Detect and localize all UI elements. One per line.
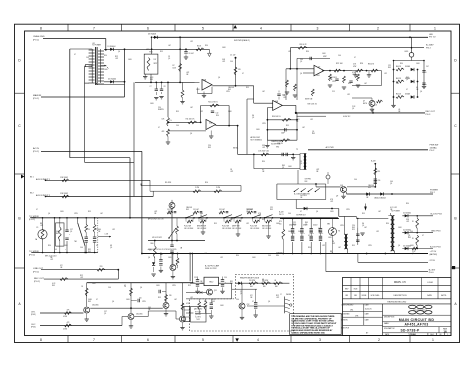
svg-text:7: 7 bbox=[93, 338, 95, 342]
svg-text:AF451: AF451 bbox=[233, 147, 238, 150]
svg-text:BRIGHT SW: BRIGHT SW bbox=[197, 225, 206, 227]
svg-text:J7: J7 bbox=[280, 294, 282, 296]
svg-text:R9 470K: R9 470K bbox=[165, 182, 172, 184]
svg-text:R55: R55 bbox=[88, 211, 91, 213]
svg-text:.022: .022 bbox=[347, 94, 350, 96]
svg-text:Q5: Q5 bbox=[104, 313, 106, 315]
svg-text:D2 1N4004: D2 1N4004 bbox=[108, 79, 116, 81]
svg-text:SD-9738-P: SD-9738-P bbox=[400, 328, 420, 332]
svg-text:U3B: U3B bbox=[209, 122, 212, 124]
svg-text:C44: C44 bbox=[338, 55, 341, 57]
svg-text:10U: 10U bbox=[139, 298, 142, 300]
svg-text:R11 10K 1%: R11 10K 1% bbox=[186, 119, 195, 121]
svg-text:C44: C44 bbox=[298, 231, 301, 233]
svg-text:47K: 47K bbox=[67, 322, 70, 324]
svg-text:NONE: NONE bbox=[362, 295, 367, 297]
svg-text:1/16W: 1/16W bbox=[63, 328, 68, 330]
svg-text:C3: C3 bbox=[300, 161, 302, 163]
svg-text:1/2W: 1/2W bbox=[346, 209, 350, 211]
svg-text:R77 C58: R77 C58 bbox=[195, 311, 201, 313]
svg-text:1N4148: 1N4148 bbox=[186, 207, 192, 209]
svg-text:R34: R34 bbox=[306, 51, 309, 53]
svg-text:C44: C44 bbox=[176, 125, 179, 127]
svg-text:3: 3 bbox=[319, 338, 321, 342]
svg-text:AF451,AF703: AF451,AF703 bbox=[404, 323, 428, 327]
svg-text:C30: C30 bbox=[378, 180, 381, 182]
svg-text:220 1/2W: 220 1/2W bbox=[249, 280, 256, 282]
svg-text:B+36V: B+36V bbox=[429, 269, 436, 271]
svg-text:.047: .047 bbox=[190, 107, 193, 109]
svg-text:+: + bbox=[313, 233, 314, 235]
svg-text:1/2W: 1/2W bbox=[226, 91, 230, 93]
svg-text:(PG 2): (PG 2) bbox=[33, 39, 39, 41]
svg-text:PULL SW: PULL SW bbox=[250, 225, 257, 227]
svg-text:10-31-95: 10-31-95 bbox=[365, 309, 372, 311]
svg-text:R45: R45 bbox=[270, 209, 273, 211]
svg-text:0.1: 0.1 bbox=[262, 169, 264, 171]
svg-text:.01: .01 bbox=[398, 109, 400, 111]
svg-text:2SC1815: 2SC1815 bbox=[330, 77, 337, 79]
svg-text:100U: 100U bbox=[256, 129, 260, 131]
svg-text:R24: R24 bbox=[360, 63, 363, 65]
svg-text:470P: 470P bbox=[323, 56, 327, 58]
svg-text:R55: R55 bbox=[362, 213, 365, 215]
svg-text:560: 560 bbox=[148, 307, 151, 309]
svg-text:(PG3): (PG3) bbox=[31, 314, 36, 316]
svg-text:R31: R31 bbox=[88, 249, 91, 251]
svg-text:100: 100 bbox=[200, 213, 203, 215]
svg-text:OF: OF bbox=[439, 334, 441, 336]
svg-text:Q5: Q5 bbox=[300, 61, 302, 63]
svg-text:47: 47 bbox=[158, 127, 160, 129]
svg-text:100U: 100U bbox=[328, 237, 332, 239]
svg-text:47: 47 bbox=[300, 211, 302, 213]
svg-text:.022: .022 bbox=[80, 277, 83, 279]
svg-text:3: 3 bbox=[317, 27, 319, 31]
svg-text:4: 4 bbox=[260, 27, 262, 31]
svg-text:R13 4.7K 1%: R13 4.7K 1% bbox=[208, 102, 218, 104]
svg-text:10: 10 bbox=[88, 229, 90, 231]
svg-text:1/2W: 1/2W bbox=[340, 225, 344, 227]
svg-text:PG 3: PG 3 bbox=[426, 114, 432, 116]
svg-text:Q5: Q5 bbox=[352, 108, 354, 110]
svg-text:Q4: Q4 bbox=[148, 257, 150, 259]
svg-text:R55: R55 bbox=[352, 245, 355, 247]
svg-text:Q4: Q4 bbox=[140, 287, 142, 289]
svg-text:R34: R34 bbox=[204, 301, 207, 303]
svg-text:DWG FILE: DWG FILE bbox=[342, 327, 349, 329]
svg-text:DRWN. CH.: DRWN. CH. bbox=[394, 282, 407, 284]
svg-text:Q5: Q5 bbox=[70, 231, 72, 233]
svg-text:R45: R45 bbox=[312, 133, 315, 135]
svg-text:C44: C44 bbox=[410, 231, 413, 233]
svg-text:(PG 2): (PG 2) bbox=[33, 98, 39, 100]
svg-text:47K: 47K bbox=[67, 310, 70, 312]
svg-text:C31 .047: C31 .047 bbox=[193, 209, 199, 211]
svg-text:50V: 50V bbox=[238, 69, 241, 71]
svg-text:R45: R45 bbox=[408, 237, 411, 239]
svg-text:10K .01 B50K: 10K .01 B50K bbox=[184, 228, 193, 230]
svg-text:.022: .022 bbox=[115, 58, 118, 60]
svg-text:115VAC: 115VAC bbox=[430, 146, 438, 149]
svg-text:R45: R45 bbox=[368, 187, 371, 189]
svg-text:100U: 100U bbox=[196, 89, 200, 91]
svg-text:2.2M 1/16W: 2.2M 1/16W bbox=[60, 177, 68, 179]
svg-text:.022: .022 bbox=[330, 253, 333, 255]
svg-text:IC4 RY2: IC4 RY2 bbox=[195, 316, 201, 318]
svg-text:R45: R45 bbox=[186, 209, 189, 211]
svg-text:Q12: Q12 bbox=[247, 304, 250, 306]
svg-text:Q5: Q5 bbox=[362, 225, 364, 227]
svg-text:R34: R34 bbox=[406, 203, 409, 205]
svg-text:U2: U2 bbox=[318, 67, 320, 69]
svg-text:2: 2 bbox=[377, 27, 379, 31]
svg-text:D3 1N4148: D3 1N4148 bbox=[148, 34, 156, 36]
svg-text:C44: C44 bbox=[230, 61, 233, 63]
svg-text:.022: .022 bbox=[40, 225, 43, 227]
svg-text:Q5: Q5 bbox=[412, 253, 414, 255]
svg-text:SH 1: SH 1 bbox=[430, 334, 434, 336]
svg-text:1K: 1K bbox=[412, 238, 414, 240]
svg-text:T3: T3 bbox=[338, 231, 340, 233]
svg-text:.022: .022 bbox=[283, 97, 286, 99]
svg-text:.022: .022 bbox=[288, 51, 291, 53]
svg-text:C44: C44 bbox=[86, 57, 89, 59]
svg-text:+17.5V: +17.5V bbox=[430, 251, 437, 253]
svg-text:.022: .022 bbox=[92, 43, 95, 45]
svg-text:.022: .022 bbox=[220, 257, 223, 259]
svg-text:R51: R51 bbox=[378, 171, 381, 173]
svg-text:REC OUT: REC OUT bbox=[426, 111, 436, 113]
svg-text:1N4004 1N4004: 1N4004 1N4004 bbox=[374, 197, 386, 199]
svg-text:1K: 1K bbox=[375, 105, 377, 107]
svg-text:47: 47 bbox=[96, 299, 98, 301]
svg-text:.022: .022 bbox=[406, 221, 409, 223]
svg-text:C44: C44 bbox=[288, 213, 291, 215]
svg-text:R42 2K: R42 2K bbox=[396, 94, 401, 96]
svg-text:JRL: JRL bbox=[350, 309, 353, 311]
svg-text:R45: R45 bbox=[282, 165, 285, 167]
svg-text:LED: LED bbox=[429, 34, 434, 36]
svg-text:.047: .047 bbox=[168, 45, 171, 47]
svg-text:DIN: DIN bbox=[305, 181, 308, 183]
svg-text:7812: 7812 bbox=[209, 282, 213, 284]
svg-text:.022: .022 bbox=[262, 147, 265, 149]
svg-text:1/2W: 1/2W bbox=[332, 81, 336, 83]
svg-text:Q5: Q5 bbox=[312, 131, 314, 133]
svg-text:0.1: 0.1 bbox=[55, 249, 57, 251]
svg-text:12V: 12V bbox=[154, 59, 157, 61]
svg-text:.022: .022 bbox=[190, 41, 193, 43]
svg-text:100P: 100P bbox=[281, 133, 285, 135]
svg-text:47: 47 bbox=[406, 89, 408, 91]
svg-text:.022: .022 bbox=[276, 297, 279, 299]
svg-text:Q4: Q4 bbox=[48, 213, 50, 215]
svg-text:B+15V PG3: B+15V PG3 bbox=[431, 214, 443, 216]
svg-text:Q12 D21: Q12 D21 bbox=[195, 314, 201, 316]
svg-text:5: 5 bbox=[202, 338, 204, 342]
svg-text:REC OUT: REC OUT bbox=[34, 278, 45, 280]
svg-text:R45: R45 bbox=[406, 77, 409, 79]
svg-text:47: 47 bbox=[124, 285, 126, 287]
svg-text:1/2W: 1/2W bbox=[146, 49, 150, 51]
svg-text:R45: R45 bbox=[212, 301, 215, 303]
svg-text:1: 1 bbox=[434, 27, 436, 31]
svg-text:4.7K 1%: 4.7K 1% bbox=[277, 143, 283, 145]
svg-text:6: 6 bbox=[147, 27, 149, 31]
svg-text:0.1: 0.1 bbox=[318, 228, 320, 230]
svg-text:Q4: Q4 bbox=[420, 91, 422, 93]
svg-text:R34: R34 bbox=[205, 45, 208, 47]
svg-text:.022: .022 bbox=[384, 73, 387, 75]
svg-text:(PG 2): (PG 2) bbox=[33, 151, 39, 153]
svg-text:1/2W: 1/2W bbox=[368, 245, 372, 247]
svg-text:1.5K 250V .022: 1.5K 250V .022 bbox=[258, 150, 269, 152]
svg-text:IC2: IC2 bbox=[60, 265, 63, 267]
svg-text:47: 47 bbox=[252, 301, 254, 303]
svg-text:.047: .047 bbox=[364, 83, 367, 85]
svg-text:8: 8 bbox=[40, 27, 42, 31]
svg-text:Q4: Q4 bbox=[316, 211, 318, 213]
svg-text:10K .01 B50K: 10K .01 B50K bbox=[262, 228, 271, 230]
svg-text:.022: .022 bbox=[200, 111, 203, 113]
svg-text:C44: C44 bbox=[236, 299, 239, 301]
svg-text:.047: .047 bbox=[100, 213, 103, 215]
svg-text:(PG3): (PG3) bbox=[31, 327, 36, 329]
svg-text:47: 47 bbox=[74, 54, 76, 56]
svg-text:+: + bbox=[322, 233, 323, 235]
svg-text:.022: .022 bbox=[376, 231, 379, 233]
svg-text:Q4: Q4 bbox=[218, 77, 220, 79]
svg-text:1000U: 1000U bbox=[313, 224, 317, 226]
svg-text:(PG 2): (PG 2) bbox=[34, 281, 40, 283]
svg-text:R39 1.3K 1%: R39 1.3K 1% bbox=[308, 104, 318, 106]
svg-text:C53: C53 bbox=[194, 277, 197, 279]
svg-text:C15: C15 bbox=[332, 91, 335, 93]
svg-text:RY1: RY1 bbox=[149, 52, 152, 54]
svg-text:+: + bbox=[65, 249, 66, 251]
svg-text:.047: .047 bbox=[204, 253, 207, 255]
svg-text:PULL SW: PULL SW bbox=[184, 225, 191, 227]
svg-text:Q5: Q5 bbox=[200, 215, 202, 217]
svg-text:R34: R34 bbox=[262, 219, 265, 221]
svg-text:C44: C44 bbox=[396, 83, 399, 85]
svg-text:2SC1815: 2SC1815 bbox=[246, 209, 253, 211]
svg-text:4.7K: 4.7K bbox=[353, 63, 356, 65]
svg-text:VR3: VR3 bbox=[327, 224, 330, 226]
svg-text:10K .01 B50K: 10K .01 B50K bbox=[222, 228, 231, 230]
svg-text:R12: R12 bbox=[80, 275, 83, 277]
svg-text:.022: .022 bbox=[322, 245, 325, 247]
svg-text:1/2W: 1/2W bbox=[262, 123, 266, 125]
svg-text:R45: R45 bbox=[293, 224, 296, 226]
svg-text:R60: R60 bbox=[151, 243, 154, 245]
svg-text:SAMICK. UNPUBLISHED WORK 1996: SAMICK. UNPUBLISHED WORK 1996 bbox=[291, 331, 324, 334]
svg-text:PG 7-9: PG 7-9 bbox=[429, 37, 436, 39]
svg-text:ACC PWR: ACC PWR bbox=[326, 146, 335, 149]
svg-text:Q4: Q4 bbox=[268, 301, 270, 303]
svg-text:16: 16 bbox=[443, 330, 447, 334]
svg-text:FUSE IC4 7812: FUSE IC4 7812 bbox=[205, 268, 217, 270]
svg-text:Q4: Q4 bbox=[318, 231, 320, 233]
svg-text:C44: C44 bbox=[268, 255, 271, 257]
svg-text:2: 2 bbox=[378, 338, 380, 342]
svg-text:L/D/M: L/D/M bbox=[427, 282, 433, 284]
svg-text:SPDT: SPDT bbox=[154, 63, 158, 65]
svg-text:R34: R34 bbox=[216, 115, 219, 117]
svg-text:1N4148: 1N4148 bbox=[368, 185, 374, 187]
svg-text:Q5: Q5 bbox=[168, 58, 170, 60]
svg-text:Q4: Q4 bbox=[398, 245, 400, 247]
svg-text:-17.5V: -17.5V bbox=[429, 260, 436, 262]
svg-text:Q5: Q5 bbox=[252, 117, 254, 119]
svg-text:100U: 100U bbox=[60, 211, 64, 213]
svg-text:Q5: Q5 bbox=[262, 281, 264, 283]
svg-text:B+42V: B+42V bbox=[279, 212, 284, 214]
svg-text:220: 220 bbox=[158, 107, 161, 109]
svg-text:Q5: Q5 bbox=[240, 293, 242, 295]
svg-text:VR2: VR2 bbox=[276, 147, 279, 149]
svg-text:R41 2K: R41 2K bbox=[396, 78, 401, 80]
svg-text:C17: C17 bbox=[70, 229, 73, 231]
svg-text:Q4: Q4 bbox=[112, 301, 114, 303]
svg-text:1/2W: 1/2W bbox=[160, 109, 164, 111]
svg-text:B+168V: B+168V bbox=[426, 45, 434, 47]
svg-text:R45: R45 bbox=[305, 222, 308, 224]
svg-text:1/2W: 1/2W bbox=[200, 219, 204, 221]
svg-text:.047: .047 bbox=[378, 211, 381, 213]
svg-text:Q4: Q4 bbox=[190, 133, 192, 135]
svg-text:MUTE: MUTE bbox=[363, 103, 367, 105]
svg-text:IC2: IC2 bbox=[250, 295, 253, 297]
svg-text:100U: 100U bbox=[330, 211, 334, 213]
svg-text:PULL SW: PULL SW bbox=[222, 225, 229, 227]
svg-text:Q4: Q4 bbox=[118, 51, 120, 53]
svg-text:R45: R45 bbox=[352, 227, 355, 229]
svg-text:2SC1815: 2SC1815 bbox=[136, 314, 143, 316]
svg-text:100: 100 bbox=[300, 59, 303, 61]
svg-text:R12: R12 bbox=[115, 56, 118, 58]
svg-text:Q5: Q5 bbox=[300, 163, 302, 165]
svg-text:R65: R65 bbox=[263, 286, 266, 288]
svg-text:47: 47 bbox=[242, 73, 244, 75]
svg-text:CH 2: CH 2 bbox=[31, 324, 35, 326]
svg-text:R45: R45 bbox=[56, 233, 59, 235]
svg-text:C17: C17 bbox=[104, 311, 107, 313]
svg-text:.022: .022 bbox=[352, 74, 355, 76]
svg-text:8: 8 bbox=[40, 338, 42, 342]
svg-text:R20 4.7K: R20 4.7K bbox=[299, 44, 307, 46]
svg-text:R45: R45 bbox=[208, 147, 211, 149]
svg-text:10K .01 B50K: 10K .01 B50K bbox=[232, 228, 241, 230]
svg-text:SW PWR (PAGE 2): SW PWR (PAGE 2) bbox=[234, 39, 250, 42]
svg-text:5TH PIN: 5TH PIN bbox=[305, 179, 312, 181]
svg-text:PG 2,3: PG 2,3 bbox=[279, 214, 284, 216]
svg-text:100U: 100U bbox=[410, 245, 414, 247]
svg-text:(AF703): (AF703) bbox=[430, 253, 438, 256]
svg-text:+: + bbox=[304, 233, 305, 235]
svg-text:.022: .022 bbox=[316, 169, 319, 171]
svg-text:ECN CHNG: ECN CHNG bbox=[371, 295, 380, 297]
svg-text:2SC1815: 2SC1815 bbox=[92, 305, 99, 307]
svg-text:D4: D4 bbox=[362, 223, 364, 225]
svg-text:D4: D4 bbox=[252, 115, 254, 117]
svg-text:1/16W: 1/16W bbox=[63, 316, 68, 318]
svg-text:R45: R45 bbox=[228, 89, 231, 91]
svg-text:R22 10K: R22 10K bbox=[336, 63, 343, 65]
svg-text:CHAS GND: CHAS GND bbox=[33, 35, 45, 38]
svg-text:.047: .047 bbox=[338, 247, 341, 249]
svg-text:R45: R45 bbox=[150, 79, 153, 81]
svg-text:0.1: 0.1 bbox=[416, 87, 418, 89]
svg-text:Q5: Q5 bbox=[110, 247, 112, 249]
svg-text:MID BOOST: MID BOOST bbox=[262, 225, 271, 227]
svg-text:R55: R55 bbox=[160, 51, 163, 53]
svg-text:.022: .022 bbox=[246, 223, 249, 225]
svg-text:DESCRIPTION: DESCRIPTION bbox=[394, 295, 408, 297]
svg-text:R75: R75 bbox=[279, 221, 282, 223]
svg-text:C3: C3 bbox=[240, 291, 242, 293]
svg-text:1/3/96: 1/3/96 bbox=[408, 332, 416, 336]
svg-text:.047: .047 bbox=[230, 219, 233, 221]
svg-text:Q5: Q5 bbox=[408, 235, 410, 237]
svg-text:Q4: Q4 bbox=[300, 73, 302, 75]
svg-text:C8: C8 bbox=[164, 86, 166, 88]
svg-text:560: 560 bbox=[98, 229, 101, 231]
svg-text:.022: .022 bbox=[258, 215, 261, 217]
svg-text:POWER: POWER bbox=[430, 189, 438, 191]
svg-text:C44: C44 bbox=[108, 287, 111, 289]
svg-text:1: 1 bbox=[432, 338, 434, 342]
svg-text:220: 220 bbox=[352, 225, 355, 227]
svg-text:1/2W: 1/2W bbox=[74, 213, 78, 215]
svg-text:R34: R34 bbox=[262, 161, 265, 163]
svg-text:PG 2: PG 2 bbox=[426, 47, 432, 49]
svg-text:Q9: Q9 bbox=[336, 196, 338, 198]
svg-text:TH1: TH1 bbox=[74, 241, 77, 243]
svg-text:T4 F2: T4 F2 bbox=[196, 319, 200, 321]
svg-text:100U: 100U bbox=[128, 59, 132, 61]
svg-text:R66: R66 bbox=[275, 286, 278, 288]
svg-text:+: + bbox=[426, 84, 427, 86]
svg-text:C10: C10 bbox=[216, 113, 219, 115]
svg-text:Q5: Q5 bbox=[305, 224, 307, 226]
svg-text:47: 47 bbox=[422, 235, 424, 237]
svg-text:R45: R45 bbox=[88, 301, 91, 303]
svg-text:C21: C21 bbox=[270, 207, 273, 209]
svg-text:10K .01 B50K: 10K .01 B50K bbox=[250, 228, 259, 230]
svg-text:GND PG3: GND PG3 bbox=[431, 231, 441, 233]
svg-text:DATE: DATE bbox=[427, 294, 432, 297]
svg-text:CH 1: CH 1 bbox=[31, 311, 35, 313]
svg-text:C44: C44 bbox=[80, 247, 83, 249]
svg-text:R34: R34 bbox=[48, 245, 51, 247]
svg-text:R34: R34 bbox=[308, 247, 311, 249]
svg-text:47: 47 bbox=[354, 57, 356, 59]
svg-text:47: 47 bbox=[96, 245, 98, 247]
svg-text:R10: R10 bbox=[205, 182, 208, 184]
svg-text:APPD.: APPD. bbox=[441, 294, 447, 297]
svg-text:D13 1N4004: D13 1N4004 bbox=[403, 213, 411, 215]
svg-text:.022: .022 bbox=[112, 229, 115, 231]
svg-text:4.09V DC: 4.09V DC bbox=[343, 116, 351, 118]
svg-text:PG 6: PG 6 bbox=[429, 272, 435, 274]
svg-text:R45: R45 bbox=[88, 251, 91, 253]
svg-text:100U: 100U bbox=[156, 285, 160, 287]
svg-text:5TH PIN: 5TH PIN bbox=[276, 253, 283, 255]
svg-text:R55: R55 bbox=[348, 83, 351, 85]
svg-text:R55: R55 bbox=[246, 87, 249, 89]
